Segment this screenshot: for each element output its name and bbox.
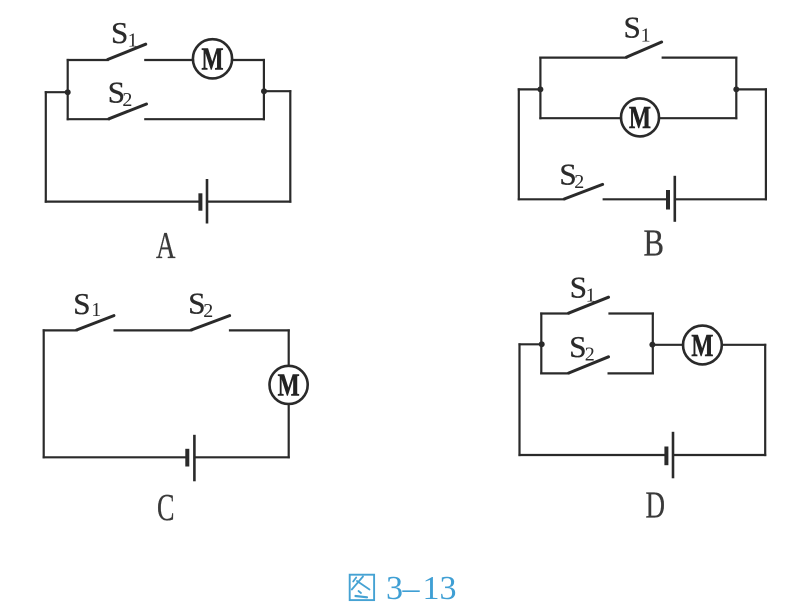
wire B bottom right segment [676,198,766,200]
wire A top branch left segment [68,59,108,61]
wire B outer right vertical [765,89,767,199]
node D-left junction dot [539,341,545,347]
svg-text:1: 1 [128,30,138,52]
node B-left junction dot [537,86,543,92]
wire B right inner vertical [735,58,737,119]
wire A bottom right segment [209,201,291,203]
battery (D) short plate [664,447,668,466]
switch S2 blade (D) [569,357,609,373]
svg-text:M: M [629,99,651,135]
wire A top branch right segment [232,59,264,61]
wire A left stub [46,91,68,93]
wire C top branch right segment [230,329,289,331]
svg-text:3: 3 [386,570,403,607]
wire B top branch left segment [540,56,626,58]
node B-right junction dot [733,86,739,92]
svg-text:13: 13 [423,570,457,607]
wire B middle branch left segment [540,117,621,119]
wire C right vertical lower [288,404,290,457]
wire C top branch left segment [44,329,77,331]
node D-right junction dot [649,342,655,348]
battery (A) short plate [198,193,202,210]
wire D bottom left segment [520,454,665,456]
wire D motor right segment [722,344,765,346]
svg-text:2: 2 [585,343,595,365]
wire C left vertical [43,330,45,457]
svg-text:1: 1 [586,284,596,306]
wire B bottom left segment [519,198,564,200]
wire B bottom middle segment [604,198,666,200]
battery (A) long plate [206,179,209,224]
svg-text:1: 1 [91,299,101,321]
battery (B) long plate [673,176,676,222]
wire D S1-branch left segment [541,312,568,314]
wire C bottom right segment [196,456,289,458]
switch S1 blade (C) [77,316,114,330]
svg-text:B: B [644,223,665,265]
wire D left inner vertical [540,314,542,374]
caption character 图 (drawn) [350,575,374,600]
wire A top branch middle segment [145,59,193,61]
wire B outer left vertical [518,89,520,199]
battery (C) long plate [193,435,196,482]
node A-left junction dot [65,89,71,95]
wire D S2-branch left segment [541,372,568,374]
battery (D) long plate [672,432,675,479]
wire B top branch right segment [663,56,737,58]
svg-text:M: M [691,327,713,363]
svg-text:M: M [202,41,224,77]
motor M (C) [270,366,308,404]
wire D left stub [520,343,542,345]
motor M (B) [621,98,659,136]
wire D S1-branch right segment [610,312,653,314]
svg-text:–: – [402,570,421,607]
wire D S2-branch right segment [609,372,653,374]
node A-right junction dot [261,88,267,94]
switch S2 blade (A) [109,104,147,119]
switch S1 blade (D) [569,297,609,313]
wire A outer left vertical [45,92,47,201]
svg-text:S: S [624,9,641,44]
svg-text:S: S [73,286,90,321]
wire D middle right segment [653,344,683,346]
wire B right stub [736,88,766,90]
svg-text:2: 2 [574,171,584,193]
motor M (A) [193,39,232,78]
svg-text:S: S [570,270,587,305]
svg-text:M: M [278,367,300,403]
wire C top branch middle segment [115,329,192,331]
svg-text:S: S [111,15,128,50]
svg-text:A: A [156,225,176,267]
svg-text:D: D [646,485,666,527]
svg-text:1: 1 [641,24,651,46]
wire A left inner vertical [67,60,69,119]
switch S1 blade (A) [108,44,146,59]
wire D right inner vertical [652,314,654,374]
wire B left inner vertical [539,58,541,119]
wire A right stub [264,90,290,92]
switch S1 blade (B) [626,42,661,57]
wire D outer right vertical [764,345,766,455]
svg-text:2: 2 [122,89,132,111]
battery (C) short plate [185,449,189,467]
wire C right vertical upper [288,330,290,365]
motor M (D) [683,326,722,365]
svg-text:2: 2 [203,300,213,322]
wire A outer right vertical [289,91,291,201]
wire C bottom left segment [44,456,186,458]
wire B left stub [519,88,541,90]
wire D bottom right segment [675,454,766,456]
switch S2 blade (B) [564,184,602,199]
wire A bottom left segment [46,201,199,203]
wire A second branch right segment [145,118,264,120]
wire D outer left vertical [518,344,520,455]
battery (B) short plate [666,190,670,210]
wire A right inner vertical [263,60,265,119]
wire A second branch left segment [68,118,109,120]
svg-text:C: C [157,487,175,529]
switch S2 blade (C) [191,316,229,330]
wire B middle branch right segment [659,117,736,119]
